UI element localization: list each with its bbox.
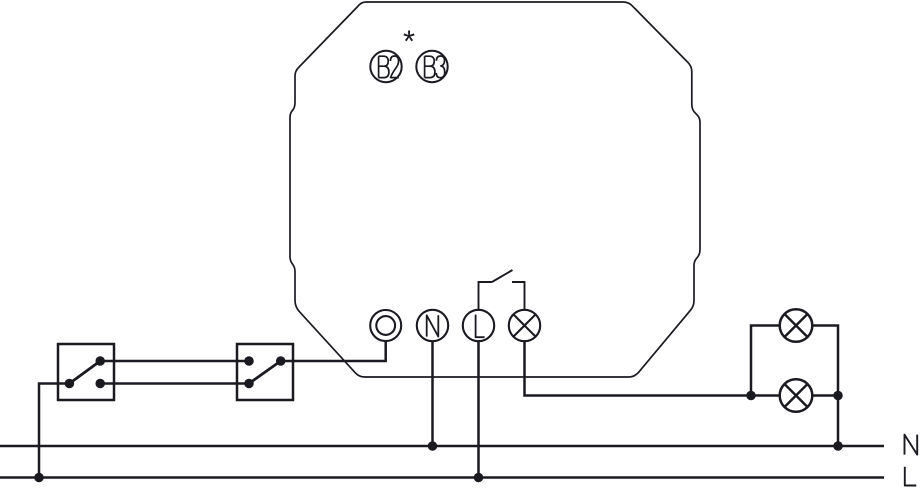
- junction dot S1 wire on L bus: [34, 473, 44, 483]
- button B3: [416, 51, 447, 82]
- switch S2 upper left contact: [244, 356, 254, 366]
- N bus line: [0, 445, 884, 448]
- device outline U1 (flush-mount actuator housing): [290, 2, 700, 377]
- junction dot lamp branch right: [833, 391, 843, 401]
- junction dot right branch on N bus: [833, 441, 843, 451]
- terminal L: [463, 310, 494, 341]
- switch S1 lower right contact: [95, 379, 105, 389]
- button B2: [370, 51, 401, 82]
- terminal N: [417, 310, 448, 341]
- switch S2 lever: [249, 361, 281, 384]
- wire L terminal to L bus: [477, 342, 480, 478]
- terminal lamp output (circle with cross): [509, 310, 540, 341]
- wire N terminal to N bus: [431, 342, 434, 447]
- switch S1 box: [58, 344, 114, 400]
- wire S1 to S2 upper: [100, 360, 249, 363]
- lamp E2: [780, 379, 813, 412]
- wire S1 to S2 lower: [100, 382, 249, 385]
- svg-text:*: *: [403, 24, 415, 59]
- junction dot L wire on L bus: [474, 473, 484, 483]
- relay switch contact (inside device, between L and lamp output): [479, 270, 525, 311]
- switch S2 right contact: [276, 356, 286, 366]
- switch S2 box: [237, 344, 293, 400]
- L bus line: [0, 476, 884, 479]
- terminal O (neutral loop-through): [370, 310, 401, 341]
- lamp E1: [780, 309, 813, 342]
- switch S1 upper right contact: [95, 356, 105, 366]
- wire lamp branch right: [812, 326, 838, 447]
- label N (bus): [905, 435, 918, 455]
- label L (bus): [905, 467, 917, 486]
- wire lamp branch left: [751, 326, 780, 396]
- switch S2 lower left contact: [244, 379, 254, 389]
- wire lamp E2 to right branch: [812, 394, 838, 397]
- switch S1 left contact: [65, 379, 75, 389]
- wire O terminal to switch S2 output: [281, 341, 386, 361]
- junction dot N wire on N bus: [428, 441, 438, 451]
- wire lamp output to lamps: [525, 342, 780, 396]
- switch S1 lever: [69, 361, 100, 384]
- junction dot lamp branch left: [746, 391, 756, 401]
- wire S1 to L bus: [39, 384, 69, 478]
